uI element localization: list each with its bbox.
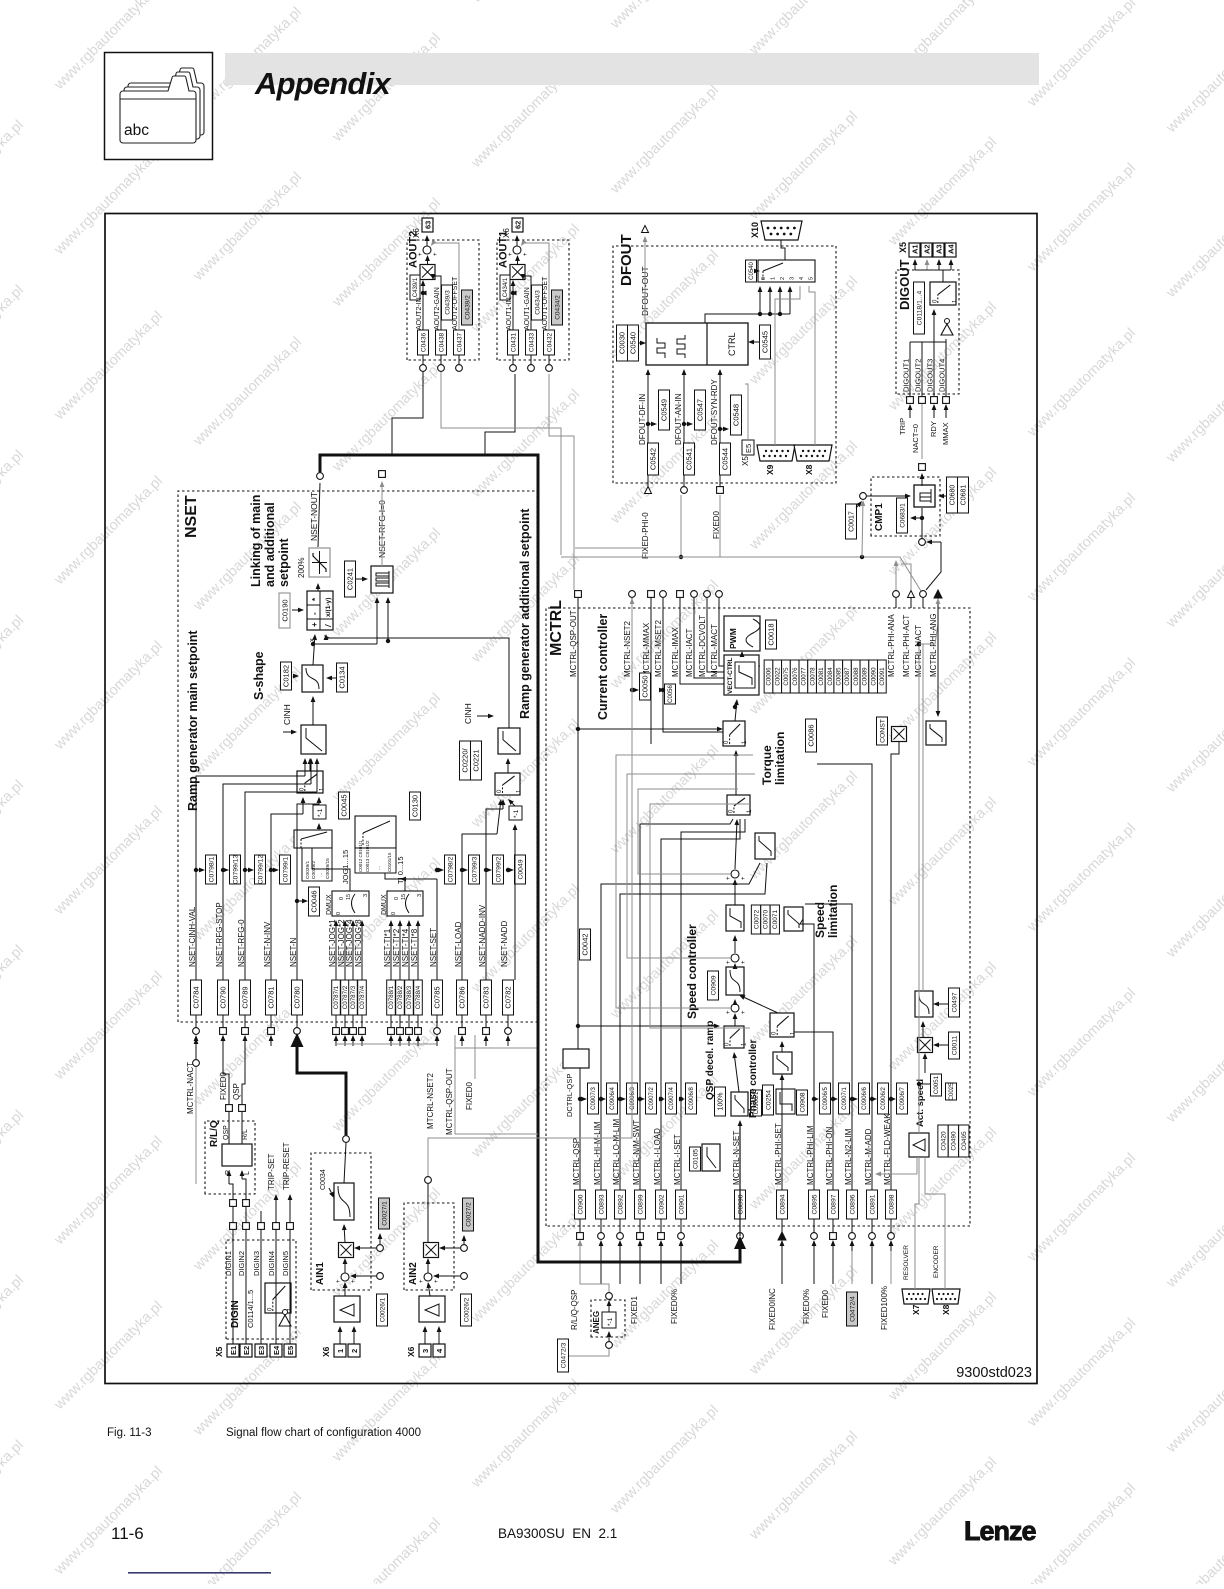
- wire MCTRL-N/M-SWT: [640, 819, 733, 1190]
- svg-text:C0906/5: C0906/5: [823, 1086, 829, 1109]
- label DIGOUT1: [902, 359, 911, 392]
- svg-text:C0890: C0890: [737, 1194, 744, 1214]
- svg-text:JOG1...15: JOG1...15: [341, 850, 350, 884]
- svg-text:C0012 C0101/1: C0012 C0101/1: [358, 840, 363, 872]
- wire NSET-CINH-VAL to ramp: [196, 758, 307, 980]
- wire DIGOUT4: [945, 342, 947, 396]
- svg-text:C0072: C0072: [753, 910, 760, 930]
- value box C0907/2: [646, 1083, 657, 1114]
- wire NSET-JOG to DMUX: [343, 920, 348, 980]
- wire MCTRL-N-SET stub: [739, 1219, 741, 1233]
- value box C0087: [843, 660, 852, 693]
- svg-text:*-1: *-1: [317, 808, 324, 817]
- wire MCTRL-LO-M-LIM: [620, 863, 767, 1190]
- wire MCTRL-PHI-ACT stub: [910, 598, 912, 608]
- terminal C0026 in: [377, 1273, 384, 1280]
- switch NSET-N invert: [297, 771, 325, 793]
- svg-text:+: +: [508, 252, 514, 256]
- terminal box A3: [933, 243, 944, 257]
- title ramp generator additional setpoint: [518, 508, 532, 719]
- svg-text:www.rgbautomatyka.pl: www.rgbautomatyka.pl: [51, 1298, 166, 1413]
- svg-text:+: +: [433, 252, 439, 256]
- svg-text:C0798/1: C0798/1: [208, 856, 215, 882]
- value box C0221: [471, 741, 482, 780]
- wire NSET-RFG-STOP stub: [222, 1015, 224, 1028]
- terminal C0027 in: [377, 1245, 384, 1252]
- wire load source bus: [455, 1047, 538, 1049]
- wire sum3 to switch: [734, 819, 739, 869]
- wire C0017 to input: [856, 501, 862, 508]
- value box C0089: [860, 660, 869, 693]
- svg-text:C0781: C0781: [267, 986, 276, 1008]
- footer document id: [498, 1526, 617, 1541]
- svg-text:C0790: C0790: [219, 986, 228, 1008]
- terminal MCTRL-DCVOLT: [704, 591, 711, 598]
- svg-text:X8: X8: [941, 1304, 951, 1315]
- value box C0896: [847, 1190, 858, 1219]
- terminal NSET-JOG*8: [359, 1028, 366, 1035]
- terminal MCTRL-NSET2: [629, 591, 636, 598]
- svg-text:S-shape: S-shape: [252, 651, 266, 700]
- wire to C0046: [297, 899, 308, 904]
- svg-text:NSET-NOUT: NSET-NOUT: [309, 492, 319, 541]
- terminal DIGIN1: [230, 1223, 237, 1230]
- value box C0006: [764, 660, 773, 693]
- terminal NSET-NADD-INV: [483, 1028, 490, 1035]
- svg-text:FIXED1: FIXED1: [630, 1295, 639, 1324]
- wire switch to priority switch: [734, 750, 739, 795]
- wire ANEG to out: [607, 1300, 612, 1312]
- wire into MCTRL-I-LOAD: [659, 1240, 664, 1251]
- caption figure number: [107, 1427, 152, 1439]
- svg-text:C0906/6: C0906/6: [862, 1086, 868, 1109]
- svg-text:R/L/Q-QSP: R/L/Q-QSP: [570, 1290, 579, 1330]
- svg-text:www.rgbautomatyka.pl: www.rgbautomatyka.pl: [607, 742, 722, 857]
- wire jog ti source bus: [336, 1043, 437, 1045]
- svg-text:www.rgbautomatyka.pl: www.rgbautomatyka.pl: [885, 134, 1000, 249]
- wire into integrator: [375, 597, 380, 644]
- svg-text:C0025: C0025: [949, 1082, 955, 1100]
- wire into NSET-CINH-VAL: [194, 1035, 199, 1046]
- svg-text:C0439/2: C0439/2: [464, 295, 471, 320]
- wire DIGOUT4 to inverter: [945, 339, 947, 396]
- wire resolver to act speed: [875, 1157, 917, 1176]
- terminal box A2: [921, 243, 932, 257]
- wire DIGOUT bus: [915, 269, 951, 271]
- wire into NSET-NADD-INV: [484, 1035, 489, 1046]
- svg-text:www.rgbautomatyka.pl: www.rgbautomatyka.pl: [1163, 186, 1224, 301]
- svg-text:www.rgbautomatyka.pl: www.rgbautomatyka.pl: [0, 282, 27, 397]
- wire X8 to selector: [809, 286, 815, 445]
- terminal MCTRL-PHI-LIM: [811, 1233, 818, 1240]
- header abc folder icon: [105, 53, 213, 160]
- value box C0050: [640, 673, 651, 700]
- wire comparator to feedback circle: [921, 508, 923, 538]
- wire to R/L port: [241, 1112, 243, 1144]
- label FIXED1: [630, 1295, 639, 1324]
- label R/L port: [242, 1129, 249, 1140]
- wire into MCTRL-QSP: [578, 1240, 583, 1251]
- wire DIGIN3: [260, 1229, 262, 1344]
- svg-text:MCTRL-DCVOLT: MCTRL-DCVOLT: [698, 615, 707, 677]
- terminal ANEG in: [606, 1342, 613, 1349]
- terminal MCTRL-NACT: [920, 591, 927, 598]
- value box C0118: [914, 282, 925, 334]
- svg-text:C0545: C0545: [761, 331, 770, 353]
- svg-text:www.rgbautomatyka.pl: www.rgbautomatyka.pl: [607, 907, 722, 1022]
- svg-text:C0084: C0084: [827, 667, 834, 686]
- wire CINH into ramp: [283, 730, 297, 735]
- label MCTRL-QSP: [572, 1138, 581, 1185]
- svg-text:C0899: C0899: [637, 1194, 644, 1214]
- terminal box 62: [512, 218, 523, 232]
- wire vector control to PWM: [740, 651, 745, 657]
- svg-text:C0017: C0017: [849, 511, 856, 532]
- title AIN1: [315, 1262, 326, 1285]
- wire into MCTRL-I-SET: [679, 1240, 684, 1251]
- svg-text:www.rgbautomatyka.pl: www.rgbautomatyka.pl: [607, 1237, 722, 1352]
- terminal MCTRL-QSP: [577, 1233, 584, 1240]
- terminal DIGOUT4: [943, 397, 950, 404]
- wire multiplier to sum: [425, 255, 430, 264]
- label AOUT2-GAIN: [434, 287, 441, 330]
- label QSP rlq: [232, 1083, 241, 1100]
- vector control block VECT-CTRL: [724, 655, 759, 695]
- wire MCTRL-PHI-SET: [781, 1078, 783, 1190]
- svg-text:C0042: C0042: [581, 933, 590, 955]
- label NSET-NADD-INV: [478, 904, 487, 967]
- wire fixed-phi route: [575, 547, 648, 549]
- svg-text:FIXED0: FIXED0: [821, 1289, 830, 1318]
- label JOG1...15: [341, 850, 350, 884]
- terminal ANEG out: [606, 1293, 613, 1300]
- label X8: [941, 1304, 951, 1315]
- wire C0680 to comparator: [938, 494, 946, 499]
- svg-text:C0799/13: C0799/13: [232, 855, 239, 885]
- value box C0799/1: [280, 855, 291, 884]
- value box C0439/2: [462, 290, 473, 325]
- label MCTRL-I-LOAD: [653, 1128, 662, 1185]
- svg-text:C0893: C0893: [598, 1194, 605, 1214]
- svg-text:AOUT1-OFFSET: AOUT1-OFFSET: [542, 276, 549, 330]
- title AIN2: [408, 1262, 419, 1285]
- wire MCTRL-DCVOLT down: [707, 598, 727, 672]
- svg-text:C0134: C0134: [338, 666, 347, 688]
- title R/L/Q: [209, 1120, 220, 1147]
- svg-text:C0039/15: C0039/15: [325, 858, 331, 879]
- svg-text:C0906/8: C0906/8: [689, 1086, 695, 1109]
- svg-text:C0085: C0085: [835, 667, 842, 686]
- svg-text:C0090: C0090: [870, 667, 877, 686]
- svg-text:www.rgbautomatyka.pl: www.rgbautomatyka.pl: [0, 1272, 27, 1387]
- svg-text:www.rgbautomatyka.pl: www.rgbautomatyka.pl: [329, 360, 444, 475]
- wire multiplier to characteristic: [342, 1224, 347, 1242]
- wire sum to 63: [425, 235, 430, 246]
- svg-text:C0907/2: C0907/2: [649, 1086, 655, 1109]
- value box C0782: [503, 980, 514, 1015]
- svg-text:C0900: C0900: [577, 1194, 584, 1214]
- svg-text:+: +: [419, 1279, 425, 1283]
- title CMP1: [874, 503, 885, 531]
- svg-text:FIXED0INC: FIXED0INC: [768, 1288, 777, 1330]
- caption text: [226, 1427, 421, 1439]
- terminal C0432: [546, 365, 553, 372]
- value box C0787/1: [332, 980, 341, 1015]
- wire MCTRL-PHI-ANA stub: [895, 598, 897, 608]
- label AOUT2-OFFSET: [452, 276, 459, 330]
- value box C0081: [816, 660, 825, 693]
- wire into MCTRL-N/M-SWT: [638, 1240, 643, 1251]
- svg-text:abc: abc: [124, 122, 149, 139]
- wire to sum2: [733, 963, 738, 969]
- terminal MCTRL-FLD-WEAK: [888, 1233, 895, 1240]
- wire MCTRL-FLD-WEAK stub: [890, 1219, 892, 1233]
- value box C0105: [690, 1147, 701, 1171]
- svg-text:www.rgbautomatyka.pl: www.rgbautomatyka.pl: [607, 0, 722, 33]
- smoothing block nact: [915, 991, 933, 1017]
- svg-text:C0087: C0087: [844, 667, 851, 686]
- terminal box X6-3: [419, 1344, 431, 1357]
- value box C0781: [266, 980, 277, 1015]
- value box C0420: [938, 1125, 948, 1157]
- terminal digin2 b: [243, 1200, 250, 1207]
- terminal NSET-TI*4: [406, 1028, 413, 1035]
- wire into MCTRL-M-ADD: [870, 1240, 875, 1251]
- wire DFOUT-SYN-RDY: [718, 369, 723, 486]
- wire NSET-RFG-0 to ramp: [245, 758, 319, 980]
- svg-text:C0906/7: C0906/7: [900, 1086, 906, 1109]
- label R/L/Q-QSP: [570, 1290, 579, 1330]
- limiter 200% block: [309, 548, 330, 577]
- label DFOUT-SYN-RDY: [710, 379, 719, 445]
- svg-text:www.rgbautomatyka.pl: www.rgbautomatyka.pl: [746, 933, 861, 1048]
- wire NSET-JOG*8 stub: [361, 1015, 363, 1028]
- TI value table: [355, 840, 396, 873]
- svg-text:www.rgbautomatyka.pl: www.rgbautomatyka.pl: [190, 1489, 305, 1584]
- svg-text:C434/1: C434/1: [503, 277, 509, 297]
- wire MCTRL-NACT from left: [195, 1067, 197, 1184]
- svg-text:DIGIN4: DIGIN4: [267, 1251, 276, 1276]
- svg-text:C0076: C0076: [792, 667, 799, 686]
- wire NSET-N to switch: [297, 797, 321, 980]
- title MCTRL: [548, 600, 565, 656]
- svg-text:A4: A4: [947, 244, 956, 254]
- svg-text:www.rgbautomatyka.pl: www.rgbautomatyka.pl: [190, 1324, 305, 1439]
- title DIGIN: [230, 1300, 241, 1328]
- wire input stub: [639, 1251, 641, 1284]
- wire to C0906/8: [679, 1097, 685, 1102]
- svg-text:E1: E1: [229, 1346, 238, 1355]
- terminal MCTRL-NACT bottom: [193, 1060, 200, 1067]
- summing junction AIN2: [419, 1273, 440, 1283]
- value box C0497: [949, 988, 960, 1017]
- label DIGOUT3: [926, 359, 935, 392]
- svg-text:*-1: *-1: [607, 1317, 614, 1326]
- svg-text:www.rgbautomatyka.pl: www.rgbautomatyka.pl: [329, 1515, 444, 1584]
- inverter DIGOUT: [941, 319, 953, 336]
- svg-text:C0018: C0018: [767, 623, 776, 645]
- value box C0134: [337, 663, 348, 692]
- value box C0088: [851, 660, 860, 693]
- wire NSET-JOG*1 stub: [335, 1015, 337, 1028]
- svg-text:A2: A2: [923, 244, 932, 254]
- wire NSET-JOG to DMUX: [360, 920, 365, 980]
- label X6 AOUT2: [412, 228, 421, 238]
- output selector switch: [758, 260, 815, 282]
- svg-text:...: ...: [318, 873, 324, 877]
- block AIN2: [404, 1203, 454, 1290]
- wire MCTRL-I-SET stub: [680, 1219, 682, 1233]
- svg-text:www.rgbautomatyka.pl: www.rgbautomatyka.pl: [51, 638, 166, 753]
- value box C0220/: [460, 741, 471, 780]
- svg-text:www.rgbautomatyka.pl: www.rgbautomatyka.pl: [1024, 1480, 1139, 1584]
- label FIXED0INC: [768, 1288, 777, 1330]
- block ANEG: [591, 1300, 625, 1337]
- svg-text:E5: E5: [286, 1346, 295, 1355]
- wire MCTRL-PHI-ANG to limiter: [936, 604, 941, 717]
- value box C0894: [777, 1190, 788, 1219]
- value box C0898: [886, 1190, 897, 1219]
- title S-shape: [252, 651, 266, 700]
- svg-text:4: 4: [799, 277, 805, 280]
- svg-text:+: +: [726, 960, 732, 964]
- svg-text:C0434/2: C0434/2: [554, 295, 561, 320]
- svg-text:C0894: C0894: [779, 1194, 786, 1214]
- svg-text:...: ...: [376, 866, 382, 870]
- wire E5 to CTRL: [745, 384, 748, 440]
- wire to multiplier AIN2: [439, 1246, 460, 1251]
- svg-text:C0908: C0908: [799, 1092, 806, 1112]
- svg-text:X6: X6: [406, 1346, 416, 1357]
- svg-text:C0046: C0046: [310, 890, 319, 912]
- wire to C0799/2: [486, 868, 492, 873]
- wire MCTRL-NSET2 stub: [631, 598, 633, 608]
- wire digin3: [260, 1211, 262, 1223]
- svg-text:setpoint: setpoint: [277, 538, 291, 587]
- svg-text:DIGIN2: DIGIN2: [237, 1251, 246, 1276]
- label NSET-NADD: [500, 921, 509, 967]
- wire into switch: [932, 309, 937, 342]
- wire to multiplier AIN1: [354, 1246, 376, 1251]
- terminal CMP1 out: [919, 464, 926, 471]
- label NSET-TI*8: [410, 928, 419, 967]
- svg-text:RDY: RDY: [929, 421, 938, 437]
- wire into MCTRL-LO-M-LIM: [618, 1240, 623, 1251]
- rotated signal flow diagram: [178, 218, 970, 1372]
- svg-text:X5: X5: [741, 456, 750, 466]
- value box C0078: [808, 660, 817, 693]
- wire to C0906/4: [600, 1097, 606, 1102]
- svg-text:C0901: C0901: [678, 1194, 685, 1214]
- svg-text:www.rgbautomatyka.pl: www.rgbautomatyka.pl: [0, 1107, 27, 1222]
- wire NSET-JOG*2 stub: [344, 1015, 346, 1028]
- svg-text:www.rgbautomatyka.pl: www.rgbautomatyka.pl: [885, 1454, 1000, 1569]
- svg-text:C0787/3: C0787/3: [350, 985, 357, 1009]
- label MCTRL-PHI-ACT: [902, 615, 911, 677]
- svg-text:C0907/4: C0907/4: [669, 1086, 675, 1109]
- wire MCTRL-PHI-ON stub: [832, 1219, 834, 1233]
- label NSET-NOUT: [309, 492, 319, 541]
- wire MCTRL-MSET2 down: [663, 598, 741, 732]
- value box C0027/2: [463, 1198, 474, 1231]
- svg-text:C0540: C0540: [629, 332, 638, 354]
- terminal MCTRL-IACT: [691, 591, 698, 598]
- wire MCTRL-PHI-ANA up: [894, 560, 899, 590]
- value box C0042: [580, 929, 591, 960]
- svg-text:C0549: C0549: [660, 399, 669, 421]
- svg-text:C0788/2: C0788/2: [397, 985, 404, 1009]
- title act speed: [915, 1079, 926, 1127]
- svg-text:C0221: C0221: [472, 749, 481, 771]
- svg-text:www.rgbautomatyka.pl: www.rgbautomatyka.pl: [190, 169, 305, 284]
- svg-text:-: -: [310, 612, 319, 615]
- svg-text:+: +: [741, 876, 747, 880]
- wire to C0907/2: [639, 1097, 645, 1102]
- wire to C0906/3: [620, 1097, 626, 1102]
- wire to C0547: [684, 422, 693, 427]
- value box C0907/1: [839, 1083, 850, 1114]
- svg-text:62: 62: [514, 221, 523, 229]
- terminal MCTRL-N-SET: [737, 1233, 744, 1240]
- svg-text:AOUT2-IN: AOUT2-IN: [416, 297, 423, 330]
- wire arithmetic to limiter: [316, 583, 321, 591]
- svg-text:X6: X6: [502, 228, 511, 238]
- value box C0891: [867, 1190, 878, 1219]
- label FIXED0 rlq: [219, 1071, 228, 1100]
- wire into NSET-TI*1: [389, 1035, 394, 1046]
- value box C0681: [958, 477, 969, 513]
- terminal box E2: [240, 1344, 252, 1357]
- wire phase limiter to switch: [780, 1041, 785, 1052]
- terminal MCTRL-I-LOAD: [658, 1233, 665, 1240]
- terminal AIN2 out: [425, 1177, 432, 1184]
- terminal box A4: [945, 243, 956, 257]
- block AIN1: [311, 1153, 371, 1290]
- svg-text:DMUX: DMUX: [381, 894, 388, 915]
- svg-text:+: +: [336, 1279, 342, 1283]
- svg-text:C0088: C0088: [853, 667, 860, 686]
- value box C0022: [773, 660, 782, 693]
- wire branch to C0050: [632, 688, 639, 693]
- wire NSET-NADD-INV stub: [485, 1015, 487, 1028]
- svg-text:FIXED0: FIXED0: [465, 1081, 474, 1110]
- terminal box E1: [227, 1344, 239, 1357]
- svg-text:C0785: C0785: [433, 986, 442, 1008]
- wire digin5: [289, 1216, 291, 1223]
- wire to MCTRL-PHI-ANG: [919, 598, 940, 644]
- label RDY: [929, 421, 938, 437]
- svg-text:C0780: C0780: [293, 986, 302, 1008]
- wire input stub: [619, 1251, 621, 1284]
- multiplier AOUT1: [510, 265, 525, 280]
- label L: [244, 1171, 251, 1175]
- terminal NSET-RFG-0: [242, 1028, 249, 1035]
- svg-text:C0782: C0782: [504, 986, 513, 1008]
- JOG value table: [302, 848, 332, 881]
- wire input stub: [813, 1251, 815, 1284]
- terminal NSET-RFG-STOP: [220, 1028, 227, 1035]
- wire into MCTRL-PHI-SET: [780, 1240, 785, 1251]
- terminal DIGIN3: [258, 1223, 265, 1230]
- svg-text:*-1: *-1: [513, 809, 520, 818]
- label MCTRL-MSET2: [654, 620, 663, 677]
- actual speed block: [909, 1133, 929, 1157]
- svg-text:RESOLVER: RESOLVER: [903, 1245, 910, 1280]
- terminal box 63: [422, 218, 433, 232]
- title AOUT1: [498, 231, 510, 268]
- wire nact gray bus: [561, 557, 921, 591]
- label X6 ain2: [406, 1346, 416, 1357]
